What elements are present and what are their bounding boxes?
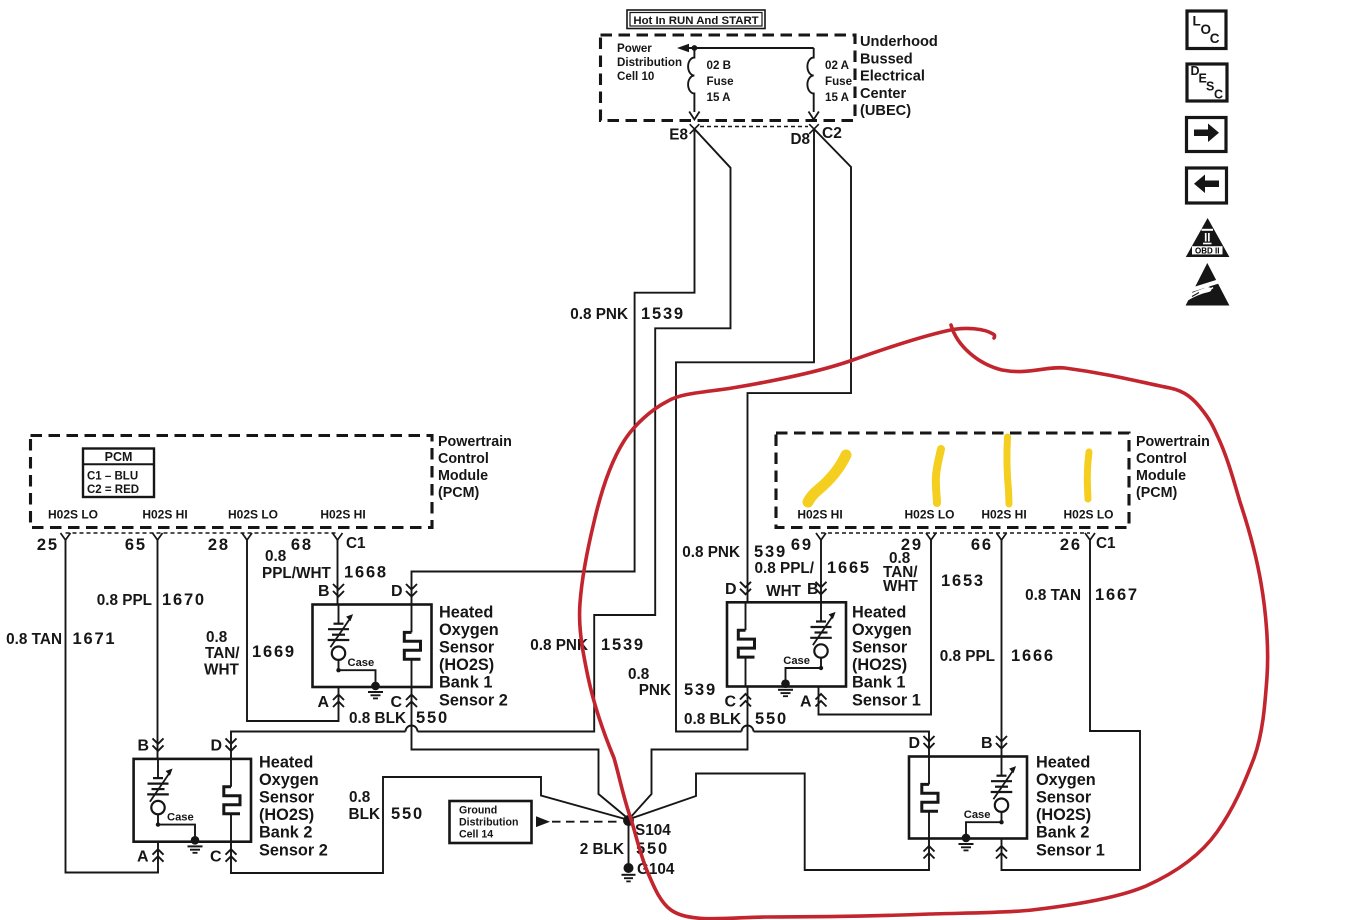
svg-text:Distribution: Distribution bbox=[617, 56, 682, 69]
svg-text:Case: Case bbox=[348, 657, 375, 669]
svg-text:C: C bbox=[210, 849, 222, 866]
HO2S B2S1 top pin D bbox=[908, 735, 934, 752]
svg-text:H02S HI: H02S HI bbox=[142, 508, 187, 522]
HO2S B1S2 heater element bbox=[404, 632, 420, 659]
label: Powertrain Control Module (PCM) right bbox=[1136, 434, 1210, 501]
label: Hot In RUN And START header box bbox=[627, 10, 765, 29]
pin 69 bbox=[791, 533, 826, 554]
wire PPL/WHT 1665 pin 69 to B1S1 pin B bbox=[820, 540, 822, 602]
right PCM H02S pin function labels bbox=[797, 508, 1113, 522]
wire BLK 550 from B1S1 pin C to S104 bbox=[630, 687, 748, 819]
svg-text:A: A bbox=[800, 694, 812, 711]
HO2S B1S1 top pin D bbox=[725, 581, 751, 598]
HO2S B2S2 heater element bbox=[224, 787, 240, 814]
HO2S B1S1 heater element bbox=[738, 630, 754, 657]
svg-text:(HO2S): (HO2S) bbox=[259, 806, 314, 824]
svg-text:WHT: WHT bbox=[204, 662, 239, 679]
PCM right dashed box bbox=[776, 433, 1129, 528]
HO2S B1S2 top pin D bbox=[391, 583, 417, 600]
svg-text:550: 550 bbox=[416, 709, 449, 727]
svg-text:Sensor 1: Sensor 1 bbox=[852, 691, 921, 709]
pin 26 bbox=[1060, 533, 1095, 554]
svg-text:Oxygen: Oxygen bbox=[259, 771, 319, 789]
wire PNK 1539 from E8 to HO2S B1S2 pin D bbox=[412, 129, 695, 605]
svg-text:0.8 PPL/: 0.8 PPL/ bbox=[754, 560, 814, 577]
svg-text:Case: Case bbox=[783, 655, 810, 667]
HO2S B2S1 box bbox=[909, 757, 1027, 839]
svg-text:15 A: 15 A bbox=[707, 91, 732, 104]
svg-text:2 BLK: 2 BLK bbox=[580, 841, 624, 858]
svg-text:S104: S104 bbox=[635, 822, 671, 839]
svg-text:D: D bbox=[391, 583, 403, 600]
label: 0.8 BLK 550 (B1S2) bbox=[349, 709, 449, 727]
wire TAN/WHT 1669 pin 28 to B1S2 pin A bbox=[247, 540, 339, 721]
pin 68 bbox=[291, 533, 343, 554]
svg-text:1668: 1668 bbox=[344, 564, 388, 582]
svg-text:02 B: 02 B bbox=[707, 59, 732, 72]
dashed pointer from Ground Distribution to S104 bbox=[536, 816, 622, 827]
ground G104 bbox=[622, 861, 675, 881]
svg-text:539: 539 bbox=[684, 681, 717, 699]
HO2S B2S2 top pin B bbox=[137, 737, 163, 754]
svg-text:Sensor: Sensor bbox=[852, 639, 908, 657]
svg-text:Fuse: Fuse bbox=[707, 75, 735, 88]
svg-text:1671: 1671 bbox=[73, 630, 117, 648]
label: 0.8 PNK 1539 (lower) bbox=[530, 636, 645, 654]
svg-text:D: D bbox=[210, 737, 222, 754]
label: 02 B Fuse 15 A bbox=[707, 59, 735, 104]
svg-text:B: B bbox=[807, 581, 819, 598]
svg-text:C1: C1 bbox=[346, 535, 366, 552]
label: 02 A Fuse 15 A bbox=[825, 59, 853, 104]
svg-text:Control: Control bbox=[1136, 451, 1187, 467]
UBEC connector strip dashed line bbox=[700, 126, 808, 128]
svg-text:B: B bbox=[318, 583, 330, 600]
wire 2 BLK 550 S104 to G104 bbox=[628, 822, 630, 867]
HO2S B2S1 top pin B bbox=[981, 735, 1007, 752]
label: 0.8 PNK 1539 (upper) bbox=[570, 305, 685, 323]
svg-text:0.8 PPL: 0.8 PPL bbox=[940, 648, 995, 665]
svg-text:Heated: Heated bbox=[259, 753, 313, 771]
svg-text:D8: D8 bbox=[790, 131, 810, 148]
svg-text:Power: Power bbox=[617, 42, 652, 55]
fuse 02 A 15 A bbox=[807, 48, 819, 120]
svg-text:0.8 PNK: 0.8 PNK bbox=[570, 306, 628, 323]
label: 0.8 BLK 550 (B2S2) bbox=[349, 789, 424, 823]
icon: DESC box bbox=[1187, 64, 1227, 102]
svg-text:Control: Control bbox=[438, 451, 489, 467]
svg-text:H02S LO: H02S LO bbox=[48, 508, 98, 522]
HO2S B1S1 sensing element (variable EMF source) bbox=[810, 612, 835, 658]
svg-text:C: C bbox=[1214, 88, 1223, 102]
label: HO2S B2S2 name text bbox=[259, 753, 328, 859]
svg-text:25: 25 bbox=[37, 536, 59, 554]
label: HO2S B1S1 name text bbox=[852, 603, 921, 709]
svg-text:Sensor 2: Sensor 2 bbox=[439, 691, 508, 709]
svg-text:550: 550 bbox=[391, 805, 424, 823]
svg-text:Bank 1: Bank 1 bbox=[439, 674, 492, 692]
right PCM connector strip dashed line bbox=[821, 532, 1090, 534]
svg-text:65: 65 bbox=[125, 536, 147, 554]
wire PPL 1666 pin 66 to B2S1 pin B bbox=[1001, 540, 1003, 757]
svg-text:H02S LO: H02S LO bbox=[1063, 508, 1113, 522]
HO2S B2S2 heater entry wire bbox=[230, 759, 232, 787]
left PCM connector strip dashed line bbox=[66, 532, 338, 534]
svg-text:Sensor: Sensor bbox=[439, 639, 495, 657]
HO2S B2S1 bottom pin (sensor low) bbox=[996, 846, 1007, 859]
svg-text:1670: 1670 bbox=[162, 591, 206, 609]
svg-text:02 A: 02 A bbox=[825, 59, 850, 72]
svg-text:(PCM): (PCM) bbox=[1136, 485, 1178, 501]
yellow highlighter mark 1 bbox=[808, 455, 846, 502]
svg-text:Center: Center bbox=[860, 86, 907, 102]
svg-text:550: 550 bbox=[755, 710, 788, 728]
HO2S B2S2 bottom pin A bbox=[137, 849, 164, 866]
wire PNK 1539 branch from E8 to HO2S B2S2 pin D (with crossover hump) bbox=[231, 129, 731, 759]
HO2S B1S2 sensing element (variable EMF source) bbox=[328, 614, 353, 660]
svg-text:1653: 1653 bbox=[941, 572, 985, 590]
svg-text:Fuse: Fuse bbox=[825, 75, 853, 88]
HO2S B1S2 case tap wire bbox=[338, 660, 340, 670]
svg-text:A: A bbox=[137, 849, 149, 866]
svg-text:Heated: Heated bbox=[439, 603, 493, 621]
svg-text:Electrical: Electrical bbox=[860, 69, 925, 85]
red hand-drawn highlight loop bbox=[580, 325, 1268, 919]
HO2S B1S2 top pin B bbox=[318, 583, 344, 600]
svg-text:C1 – BLU: C1 – BLU bbox=[87, 471, 138, 483]
svg-text:0.8 TAN: 0.8 TAN bbox=[6, 631, 62, 648]
svg-text:28: 28 bbox=[208, 536, 230, 554]
svg-text:0.8 PPL: 0.8 PPL bbox=[97, 592, 152, 609]
PCM connector legend box bbox=[83, 449, 154, 498]
junction dot on UBEC feed bbox=[692, 45, 698, 51]
svg-text:C2 = RED: C2 = RED bbox=[87, 484, 139, 496]
pin 65 bbox=[125, 533, 163, 554]
HO2S B1S1 box bbox=[727, 602, 846, 686]
svg-text:(HO2S): (HO2S) bbox=[852, 656, 907, 674]
label: 2 BLK 550 bbox=[580, 840, 669, 858]
HO2S B1S2 bottom pin A bbox=[317, 694, 344, 711]
svg-text:H02S HI: H02S HI bbox=[797, 508, 842, 522]
svg-text:WHT: WHT bbox=[766, 583, 801, 600]
HO2S B2S1 case ground bbox=[959, 834, 974, 851]
HO2S B1S1 bottom pin C bbox=[724, 694, 751, 711]
svg-text:B: B bbox=[981, 735, 993, 752]
svg-text:0.8: 0.8 bbox=[349, 789, 371, 806]
svg-text:1669: 1669 bbox=[252, 643, 296, 661]
yellow highlighter mark 3 bbox=[1007, 437, 1009, 504]
svg-text:Hot In RUN And START: Hot In RUN And START bbox=[633, 15, 758, 27]
svg-text:1539: 1539 bbox=[641, 305, 685, 323]
svg-text:B: B bbox=[137, 737, 149, 754]
svg-text:Cell 10: Cell 10 bbox=[617, 70, 654, 83]
HO2S B1S2 bottom pin C bbox=[390, 694, 417, 711]
svg-text:0.8: 0.8 bbox=[265, 548, 287, 565]
svg-text:Underhood: Underhood bbox=[860, 34, 938, 50]
HO2S B1S1 top pin B bbox=[807, 581, 827, 598]
label: 0.8 TAN/WHT 1653 bbox=[883, 550, 985, 595]
wire PNK 539 from D8 to HO2S B2S1 pin D (with crossover hump) bbox=[676, 129, 929, 757]
svg-text:E8: E8 bbox=[669, 127, 688, 144]
svg-text:0.8 TAN: 0.8 TAN bbox=[1025, 587, 1081, 604]
svg-text:Case: Case bbox=[964, 809, 991, 821]
HO2S B2S2 top pin D bbox=[210, 737, 236, 754]
label: 0.8 PPL/WHT 1668 bbox=[262, 548, 388, 582]
HO2S B1S1 case ground bbox=[778, 679, 793, 696]
svg-text:1666: 1666 bbox=[1011, 647, 1055, 665]
svg-text:Sensor 2: Sensor 2 bbox=[259, 841, 328, 859]
svg-text:Powertrain: Powertrain bbox=[438, 434, 512, 450]
wire PPL/WHT 1668 pin 68 to B1S2 pin B bbox=[337, 540, 339, 605]
svg-text:539: 539 bbox=[754, 543, 787, 561]
fuse 02 B 15 A bbox=[688, 48, 699, 120]
svg-text:Bank 2: Bank 2 bbox=[1036, 824, 1089, 842]
label: HO2S B1S2 name text bbox=[439, 603, 508, 709]
svg-text:(HO2S): (HO2S) bbox=[439, 656, 494, 674]
label: 0.8 TAN/WHT 1669 bbox=[204, 629, 296, 679]
svg-text:BLK: BLK bbox=[349, 806, 380, 823]
Ground Distribution Cell 14 reference box bbox=[450, 801, 532, 843]
label: HO2S B2S1 name text bbox=[1036, 753, 1105, 859]
wire TAN/WHT 1653 pin 29 to B1S1 pin A bbox=[819, 540, 932, 715]
wire PNK 539 from C2 to HO2S B1S1 pin D bbox=[748, 129, 852, 602]
svg-text:C: C bbox=[724, 694, 736, 711]
svg-text:0.8: 0.8 bbox=[206, 629, 228, 646]
svg-text:0.8 PNK: 0.8 PNK bbox=[682, 544, 740, 561]
label: 0.8 PNK 539 (D8 branch) bbox=[628, 666, 717, 699]
svg-text:Sensor: Sensor bbox=[259, 789, 315, 807]
label: 0.8 PPL 1670 bbox=[97, 591, 206, 609]
svg-text:PPL/WHT: PPL/WHT bbox=[262, 565, 331, 582]
icon: LOC box bbox=[1187, 11, 1226, 49]
label: Powertrain Control Module (PCM) left bbox=[438, 434, 512, 501]
svg-text:Case: Case bbox=[167, 812, 194, 824]
HO2S B1S1 heater entry wire bbox=[745, 602, 747, 630]
HO2S B1S1 bottom pin A bbox=[800, 694, 827, 711]
svg-text:68: 68 bbox=[291, 536, 313, 554]
label: 0.8 PNK 539 (C2 branch) bbox=[682, 543, 787, 561]
splice S104 bbox=[623, 815, 671, 839]
HO2S B2S1 sensor entry wire bbox=[1001, 757, 1003, 776]
icon: OBD II triangle bbox=[1186, 218, 1230, 257]
svg-text:1539: 1539 bbox=[601, 636, 645, 654]
HO2S B2S2 sensor entry wire bbox=[157, 759, 159, 778]
svg-text:(UBEC): (UBEC) bbox=[860, 103, 911, 119]
svg-text:Powertrain: Powertrain bbox=[1136, 434, 1210, 450]
svg-text:(PCM): (PCM) bbox=[438, 485, 480, 501]
svg-text:69: 69 bbox=[791, 536, 813, 554]
svg-text:H02S LO: H02S LO bbox=[228, 508, 278, 522]
svg-text:TAN/: TAN/ bbox=[205, 645, 240, 662]
HO2S B1S2 case ground bbox=[368, 682, 383, 699]
icon: left arrow box bbox=[1187, 168, 1227, 203]
svg-text:Distribution: Distribution bbox=[459, 817, 518, 829]
svg-text:H02S HI: H02S HI bbox=[981, 508, 1026, 522]
svg-text:Heated: Heated bbox=[852, 603, 906, 621]
label: Underhood Bussed Electrical Center (UBEC) bbox=[860, 34, 938, 119]
HO2S B2S2 bottom pin C bbox=[210, 849, 237, 866]
svg-text:Oxygen: Oxygen bbox=[1036, 771, 1096, 789]
label: 0.8 PPL 1666 bbox=[940, 647, 1055, 665]
label: Power Distribution Cell 10 bbox=[617, 42, 682, 83]
svg-text:Bussed: Bussed bbox=[860, 51, 913, 67]
pin 28 bbox=[208, 533, 252, 554]
svg-text:Sensor 1: Sensor 1 bbox=[1036, 841, 1105, 859]
wire TAN 1667 pin 26 to B2S1 sensor-low pin bbox=[1002, 540, 1141, 870]
svg-text:PNK: PNK bbox=[639, 682, 671, 699]
wire BLK 550 from B1S2 pin C to S104 bbox=[412, 687, 629, 819]
svg-text:C1: C1 bbox=[1096, 535, 1116, 552]
pin 25 bbox=[37, 533, 71, 554]
HO2S B1S1 case tap wire bbox=[820, 658, 822, 668]
wire BLK 550 from B2S2 pin C to S104 bbox=[231, 777, 627, 873]
wire PPL 1670 pin 65 to B2S2 pin B bbox=[157, 540, 159, 759]
HO2S B2S1 heater exit wire bbox=[928, 811, 930, 838]
pin 66 bbox=[971, 533, 1007, 554]
svg-text:Ground: Ground bbox=[459, 805, 497, 817]
label: 0.8 BLK 550 (B1S1) bbox=[684, 710, 788, 728]
label: 0.8 TAN 1667 bbox=[1025, 586, 1139, 604]
svg-text:Module: Module bbox=[438, 468, 488, 484]
pin E8 bbox=[669, 124, 699, 143]
yellow highlighter mark 4 bbox=[1087, 452, 1089, 499]
HO2S B2S2 case tap wire bbox=[157, 814, 159, 824]
HO2S B1S1 sensor entry wire bbox=[820, 602, 822, 621]
HO2S B2S1 heater entry wire bbox=[928, 757, 930, 785]
wire BLK 550 from B2S1 heater-low pin to S104 bbox=[630, 774, 929, 871]
svg-text:A: A bbox=[317, 694, 329, 711]
svg-text:PCM: PCM bbox=[105, 450, 133, 464]
svg-text:Cell 14: Cell 14 bbox=[459, 829, 493, 841]
svg-text:0.8: 0.8 bbox=[628, 666, 650, 683]
svg-text:26: 26 bbox=[1060, 536, 1082, 554]
label: 0.8 PPL/ WHT 1665 bbox=[754, 559, 870, 600]
HO2S B1S1 heater exit wire bbox=[745, 657, 747, 686]
svg-text:1667: 1667 bbox=[1095, 586, 1139, 604]
svg-text:(HO2S): (HO2S) bbox=[1036, 806, 1091, 824]
wire TAN 1671 pin 25 to B2S2 pin A bbox=[66, 540, 159, 873]
HO2S B2S1 heater element bbox=[922, 784, 938, 811]
svg-text:0.8 PNK: 0.8 PNK bbox=[530, 637, 588, 654]
svg-text:D: D bbox=[908, 735, 920, 752]
svg-text:WHT: WHT bbox=[883, 578, 918, 595]
HO2S B1S2 sensor entry wire bbox=[338, 605, 340, 624]
HO2S B2S2 sensing element (variable EMF source) bbox=[147, 769, 172, 815]
svg-text:H02S LO: H02S LO bbox=[904, 508, 954, 522]
icon: ESD triangle bbox=[1185, 263, 1229, 306]
wire: UBEC internal feed with arrow to Power Distribution bbox=[677, 44, 814, 53]
label: 0.8 TAN 1671 bbox=[6, 630, 116, 648]
svg-text:0.8 BLK: 0.8 BLK bbox=[349, 710, 406, 727]
HO2S B2S1 bottom pin (heater low) bbox=[924, 846, 935, 859]
svg-text:L: L bbox=[1193, 14, 1201, 29]
pin 29 bbox=[901, 533, 936, 554]
HO2S B2S2 case ground bbox=[188, 836, 203, 853]
UBEC dashed enclosure box bbox=[601, 35, 856, 121]
svg-text:D: D bbox=[725, 581, 737, 598]
yellow highlighter mark 2 bbox=[936, 449, 941, 503]
svg-text:Oxygen: Oxygen bbox=[439, 621, 499, 639]
PCM left dashed box bbox=[31, 436, 433, 528]
svg-text:C: C bbox=[1210, 31, 1220, 46]
HO2S B1S2 heater entry wire bbox=[411, 605, 413, 633]
svg-text:1665: 1665 bbox=[827, 559, 871, 577]
svg-text:H02S HI: H02S HI bbox=[320, 508, 365, 522]
svg-text:Heated: Heated bbox=[1036, 753, 1090, 771]
svg-text:Bank 1: Bank 1 bbox=[852, 674, 905, 692]
svg-text:Module: Module bbox=[1136, 468, 1186, 484]
svg-text:0.8 BLK: 0.8 BLK bbox=[684, 711, 741, 728]
svg-text:Oxygen: Oxygen bbox=[852, 621, 912, 639]
HO2S B2S2 heater exit wire bbox=[230, 814, 232, 842]
left PCM H02S pin function labels bbox=[48, 508, 366, 522]
HO2S B1S2 heater exit wire bbox=[411, 659, 413, 687]
svg-text:C: C bbox=[390, 694, 402, 711]
svg-text:Sensor: Sensor bbox=[1036, 789, 1092, 807]
HO2S B2S1 case tap wire bbox=[1001, 812, 1003, 822]
HO2S B2S1 sensing element (variable EMF source) bbox=[991, 766, 1016, 812]
HO2S B2S2 box bbox=[134, 759, 251, 842]
svg-text:Bank 2: Bank 2 bbox=[259, 824, 312, 842]
pin D8 bbox=[790, 124, 818, 148]
svg-text:OBD II: OBD II bbox=[1195, 246, 1219, 255]
icon: right arrow box bbox=[1187, 118, 1227, 152]
svg-text:66: 66 bbox=[971, 536, 993, 554]
svg-text:15 A: 15 A bbox=[825, 91, 850, 104]
HO2S B1S2 box bbox=[313, 605, 432, 688]
